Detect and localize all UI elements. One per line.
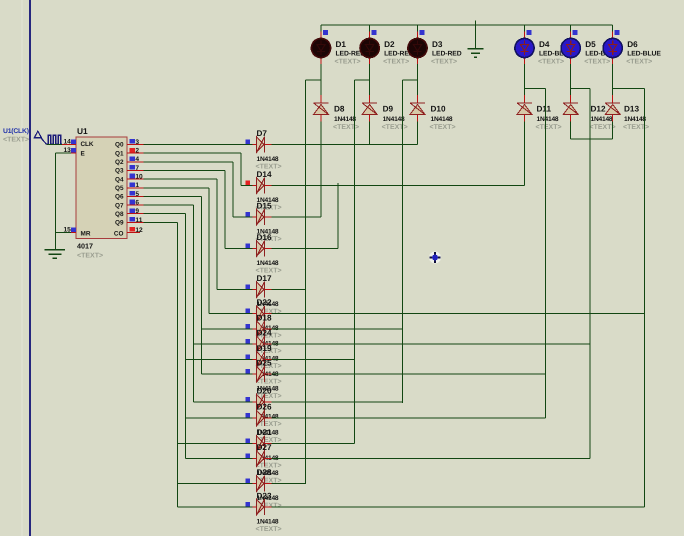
wire matrix row y=402 right: [272, 401, 403, 403]
wire Q5 staircase: [144, 187, 210, 189]
svg-text:7: 7: [135, 165, 139, 172]
pin E (pin 13) of U1: [66, 152, 76, 154]
svg-text:E: E: [81, 150, 86, 157]
LED D1 (LED-RED): [320, 25, 322, 32]
svg-text:3: 3: [135, 139, 139, 146]
wire matrix row y=483.5 right: [272, 483, 306, 485]
svg-text:<TEXT>: <TEXT>: [383, 59, 409, 66]
svg-text:U1(CLK): U1(CLK): [3, 128, 29, 135]
svg-text:2: 2: [135, 148, 139, 155]
wire clock to CLK pin: [47, 144, 62, 146]
wire matrix row y=343.9 left: [194, 343, 253, 345]
svg-text:LED-BLUE: LED-BLUE: [627, 51, 661, 58]
wire matrix row y=328.8 right: [272, 328, 403, 330]
svg-text:D19: D19: [257, 344, 272, 353]
node marker at D15 anode: [246, 212, 251, 217]
LED D2 (LED-RED): [369, 25, 371, 32]
svg-text:11: 11: [135, 217, 142, 224]
wire Q9 staircase: [144, 221, 178, 223]
svg-text:D14: D14: [257, 170, 272, 179]
svg-text:14: 14: [63, 138, 71, 145]
wire matrix row y=443.5 right: [272, 443, 355, 445]
node marker at D7 anode: [246, 140, 251, 145]
wire D12/D13 bottoms joined: [571, 138, 613, 140]
svg-text:D2: D2: [384, 40, 395, 49]
node marker at D26 anode: [246, 413, 251, 418]
svg-text:D1: D1: [336, 40, 347, 49]
svg-text:<TEXT>: <TEXT>: [536, 124, 562, 131]
wire matrix row y=313.7 right: [272, 313, 645, 315]
wire matrix row y=217 right: [272, 216, 322, 218]
node marker at D14 anode: [246, 181, 251, 186]
svg-text:<TEXT>: <TEXT>: [590, 124, 616, 131]
diode D23 1N4148 (matrix): [253, 506, 257, 508]
wire D1 jog left: [306, 79, 321, 81]
pin CLK (pin 14) of U1: [62, 144, 76, 146]
node marker at D23 anode: [246, 502, 251, 507]
wire matrix row y=402 left: [194, 401, 253, 403]
wire matrix row y=217 left: [233, 216, 253, 218]
diode D24 1N4148 (matrix): [253, 343, 257, 345]
diode D18 1N4148 (matrix): [253, 328, 257, 330]
wire matrix row y=185.5 left: [241, 185, 253, 187]
svg-text:<TEXT>: <TEXT>: [626, 59, 652, 66]
wire D6 jog right: [613, 87, 645, 89]
svg-text:<TEXT>: <TEXT>: [430, 124, 456, 131]
svg-text:D4: D4: [539, 40, 550, 49]
sheet margin light line: [21, 0, 23, 536]
svg-text:1N4148: 1N4148: [624, 116, 646, 123]
wire matrix row y=328.8 left: [201, 328, 252, 330]
svg-text:D27: D27: [257, 443, 272, 452]
LED D3 (LED-RED): [417, 25, 419, 32]
svg-text:1N4148: 1N4148: [257, 260, 279, 267]
svg-text:9: 9: [135, 208, 139, 215]
diode D8 1N4148 (vertical): [320, 95, 322, 103]
wire matrix row y=289.5 left: [217, 289, 253, 291]
wire matrix row y=313.7 left: [209, 313, 253, 315]
wire D1 column down through D8: [320, 64, 322, 95]
wire matrix row y=507 left: [178, 506, 253, 508]
svg-text:1N4148: 1N4148: [257, 519, 279, 526]
wire D3 jog left: [403, 79, 418, 81]
wire matrix row y=374.1 left: [201, 373, 252, 375]
wire Q8 staircase: [144, 213, 186, 215]
svg-text:D16: D16: [257, 233, 272, 242]
node marker above D4 (logic-low square): [526, 30, 531, 35]
node marker at D19 anode: [246, 354, 251, 359]
svg-text:D26: D26: [257, 403, 272, 412]
diode D13 1N4148 (vertical): [612, 95, 614, 103]
wire D2 column down through D9: [369, 64, 371, 95]
wire matrix row y=359.3 left: [186, 358, 253, 360]
svg-text:D10: D10: [431, 105, 446, 114]
diode D19 1N4148 (matrix): [253, 358, 257, 360]
svg-text:D3: D3: [432, 40, 443, 49]
wire matrix row y=343.9 right: [272, 343, 590, 345]
LED D4 (LED-BLUE): [524, 25, 526, 32]
node marker at D28 anode: [246, 479, 251, 484]
node marker at D27 anode: [246, 454, 251, 459]
svg-text:<TEXT>: <TEXT>: [431, 59, 457, 66]
svg-text:<TEXT>: <TEXT>: [3, 137, 29, 144]
diode D7 1N4148 (matrix): [253, 144, 257, 146]
svg-text:<TEXT>: <TEXT>: [382, 124, 408, 131]
wire matrix row y=507 right: [272, 506, 645, 508]
node marker above D6 (logic-low square): [615, 30, 620, 35]
wire Q4 staircase: [144, 178, 218, 180]
svg-text:Q4: Q4: [115, 176, 124, 183]
svg-text:Q6: Q6: [115, 194, 124, 201]
svg-text:Q8: Q8: [115, 211, 124, 218]
wire Q6 staircase: [144, 195, 202, 197]
svg-text:<TEXT>: <TEXT>: [538, 59, 564, 66]
wire MR pin to ground net: [56, 232, 72, 234]
svg-text:D25: D25: [257, 359, 272, 368]
wire matrix row y=185.5 right: [272, 185, 525, 187]
diode D22 1N4148 (matrix): [253, 313, 257, 315]
wire vertical x=545.3 (D4 net): [544, 88, 546, 418]
svg-text:1N4148: 1N4148: [591, 116, 613, 123]
diode D21 1N4148 (matrix): [253, 443, 257, 445]
svg-text:D9: D9: [383, 105, 394, 114]
svg-text:12: 12: [135, 227, 143, 234]
svg-text:<TEXT>: <TEXT>: [335, 59, 361, 66]
diode D10 1N4148 (vertical): [417, 95, 419, 103]
pin CO (pin 12) of U1: [127, 232, 140, 234]
wire matrix row y=418 right: [272, 417, 546, 419]
svg-text:D15: D15: [257, 202, 272, 211]
svg-text:Q9: Q9: [115, 220, 124, 227]
svg-text:D11: D11: [537, 105, 552, 114]
svg-text:Q3: Q3: [115, 168, 124, 175]
svg-text:5: 5: [135, 191, 139, 198]
wire vertical x=402.7 (D3 net): [402, 80, 404, 403]
diode D17 1N4148 (matrix): [253, 289, 257, 291]
wire E pin to ground rail: [56, 152, 72, 154]
svg-text:6: 6: [135, 199, 139, 206]
svg-text:10: 10: [135, 174, 143, 181]
wire vertical x=589.8 (D5 net): [589, 88, 591, 458]
wire Q1 staircase: [144, 152, 242, 154]
svg-text:1N4148: 1N4148: [537, 116, 559, 123]
wire D3 column down through D10: [417, 64, 419, 95]
svg-text:D17: D17: [257, 274, 272, 283]
svg-text:D18: D18: [257, 313, 272, 322]
node marker at D22 anode: [246, 309, 251, 314]
wire matrix row y=458.5 left: [186, 458, 253, 460]
wire D4 column down through D11: [524, 64, 526, 95]
svg-text:4: 4: [135, 156, 139, 163]
svg-text:1: 1: [135, 182, 139, 189]
diode D25 1N4148 (matrix): [253, 373, 257, 375]
svg-text:<TEXT>: <TEXT>: [623, 124, 649, 131]
sheet border (blue): [29, 0, 31, 536]
wire D5 jog right: [571, 87, 590, 89]
node marker at D21 anode: [246, 439, 251, 444]
wire matrix row y=248.5 left: [225, 248, 253, 250]
svg-text:D13: D13: [624, 105, 639, 114]
wire matrix row y=483.5 left: [178, 483, 253, 485]
wire matrix row y=458.5 right: [272, 458, 590, 460]
node marker at D24 anode: [246, 339, 251, 344]
wire Q7 staircase: [144, 204, 194, 206]
node marker above D1 (logic-low square): [323, 30, 328, 35]
wire D6 column down through D13: [612, 64, 614, 95]
svg-text:1N4148: 1N4148: [334, 116, 356, 123]
wire Q3 staircase: [144, 169, 226, 171]
diode D9 1N4148 (vertical): [369, 95, 371, 103]
svg-text:1N4148: 1N4148: [383, 116, 405, 123]
wire matrix row y=144.5 right: [272, 144, 418, 146]
svg-text:Q1: Q1: [115, 150, 124, 157]
node marker above D3 (logic-low square): [419, 30, 424, 35]
pin MR (pin 15) of U1: [66, 232, 76, 234]
node marker at D20 anode: [246, 397, 251, 402]
wire matrix row y=443.5 left: [178, 443, 253, 445]
wire D5 column down through D12: [570, 64, 572, 95]
node marker at D25 anode: [246, 369, 251, 374]
wire matrix row y=359.3 right: [272, 358, 355, 360]
node marker at D18 anode: [246, 324, 251, 329]
svg-text:D7: D7: [257, 129, 268, 138]
svg-text:Q5: Q5: [115, 185, 124, 192]
wire vertical x=354.4 (D2 net): [353, 80, 355, 444]
IC U1 4017 body: [76, 137, 127, 239]
wire matrix row y=248.5 right: [272, 248, 338, 250]
svg-text:D24: D24: [257, 328, 272, 337]
wire vertical x=337.8 from D14 row: [337, 183, 339, 249]
wire vertical to ground: [55, 153, 57, 249]
wire Q0 to D7: [144, 144, 253, 146]
svg-text:D21: D21: [257, 428, 272, 437]
svg-text:<TEXT>: <TEXT>: [333, 124, 359, 131]
svg-text:D5: D5: [585, 40, 596, 49]
svg-text:D6: D6: [627, 40, 638, 49]
origin marker cross: [429, 252, 441, 264]
diode D16 1N4148 (matrix): [253, 248, 257, 250]
svg-text:1N4148: 1N4148: [257, 156, 279, 163]
ground symbol at U1: [44, 249, 65, 251]
svg-text:D20: D20: [257, 387, 272, 396]
diode D20 1N4148 (matrix): [253, 401, 257, 403]
svg-text:<TEXT>: <TEXT>: [77, 253, 103, 260]
svg-text:D22: D22: [257, 298, 272, 307]
svg-text:D28: D28: [257, 468, 272, 477]
svg-text:1N4148: 1N4148: [431, 116, 453, 123]
wire D2 jog left: [354, 79, 369, 81]
wire vertical x=644.3 (D6 net): [643, 88, 645, 507]
svg-text:LED-RED: LED-RED: [432, 51, 462, 58]
wire matrix row y=418 left: [186, 417, 253, 419]
ground symbol top (power rail): [475, 21, 477, 49]
svg-text:<TEXT>: <TEXT>: [256, 526, 282, 533]
svg-text:D8: D8: [334, 105, 345, 114]
svg-text:Q7: Q7: [115, 202, 124, 209]
svg-text:D23: D23: [257, 492, 272, 501]
wire vertical x=305.6 (D1 net): [305, 80, 307, 484]
node marker at D17 anode: [246, 285, 251, 290]
svg-text:CLK: CLK: [81, 141, 94, 148]
diode D14 1N4148 (matrix): [253, 185, 257, 187]
wire D4 jog right: [525, 87, 546, 89]
diode D11 1N4148 (vertical): [524, 95, 526, 103]
node marker at D16 anode: [246, 244, 251, 249]
wire ground rail top: [321, 24, 613, 26]
svg-text:Q2: Q2: [115, 159, 124, 166]
node marker above D2 (logic-low square): [371, 30, 376, 35]
svg-text:CO: CO: [114, 230, 124, 237]
node marker above D5 (logic-low square): [573, 30, 578, 35]
svg-text:D12: D12: [591, 105, 606, 114]
LED D5 (LED-BLUE): [570, 25, 572, 32]
diode D27 1N4148 (matrix): [253, 458, 257, 460]
diode D28 1N4148 (matrix): [253, 483, 257, 485]
wire matrix row y=374.1 right: [272, 373, 546, 375]
LED D6 (LED-BLUE): [612, 25, 614, 32]
diode D26 1N4148 (matrix): [253, 417, 257, 419]
svg-text:Q0: Q0: [115, 142, 124, 149]
svg-text:U1: U1: [77, 126, 88, 136]
svg-text:MR: MR: [81, 230, 91, 237]
svg-text:<TEXT>: <TEXT>: [584, 59, 610, 66]
wire matrix row y=289.5 right: [272, 289, 306, 291]
wire Q2 staircase: [144, 161, 234, 163]
svg-text:4017: 4017: [77, 242, 93, 251]
diode D15 1N4148 (matrix): [253, 216, 257, 218]
diode D12 1N4148 (vertical): [570, 95, 572, 103]
